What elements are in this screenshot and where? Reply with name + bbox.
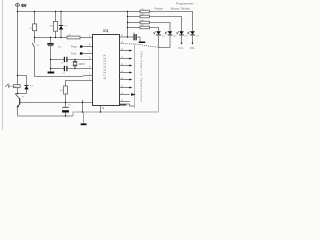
diode D2 flyback xyxy=(18,76,27,86)
wire LED1+LED2 cathodes join xyxy=(159,35,171,47)
wire pin19 dashed to LED cathodes xyxy=(120,44,162,48)
capacitor C5 electrolytic xyxy=(65,103,67,108)
svg-text:AT90S2313: AT90S2313 xyxy=(103,54,107,80)
wire R7 to LED4 xyxy=(149,12,192,32)
wire cathode bus down xyxy=(157,48,159,113)
capacitor C1 electrolytic xyxy=(50,38,52,43)
wire R10 to LED1 xyxy=(149,28,158,32)
wire LED4 to Pd2 xyxy=(192,35,194,43)
LED LD4 xyxy=(187,31,198,37)
frame left border xyxy=(2,0,4,130)
wire XTAL2 xyxy=(51,68,64,70)
wire switch to IC pin2 xyxy=(35,76,93,77)
wire ground rail right (light) xyxy=(73,112,158,116)
resistor R10 xyxy=(140,26,149,29)
resistor R9 xyxy=(140,21,149,24)
LED LD3 xyxy=(176,31,187,37)
wire +5V down to relay xyxy=(17,7,19,75)
svg-text:C3: C3 xyxy=(61,63,63,65)
svg-text:Empty: Empty xyxy=(171,6,180,10)
wire XTAL1 xyxy=(51,59,64,61)
svg-text:4MHz: 4MHz xyxy=(79,63,86,66)
wire R9 to LED2 xyxy=(149,23,170,32)
wire relay contact to edge xyxy=(9,85,14,87)
svg-text:LD4: LD4 xyxy=(195,35,198,37)
ground xyxy=(48,72,55,74)
resistor R1 xyxy=(34,12,36,24)
svg-text:Prgm: Prgm xyxy=(71,45,77,49)
wire +5V rail xyxy=(18,11,128,13)
cable arrowheads xyxy=(129,50,136,96)
junction dots xyxy=(17,11,128,117)
diode D1 xyxy=(60,12,62,26)
ground xyxy=(83,112,85,123)
transistor T1 xyxy=(19,98,21,104)
svg-text:Falsch: Falsch xyxy=(154,6,163,10)
relay K1 coil xyxy=(17,76,19,85)
capacitor C4 xyxy=(63,66,65,71)
resistor R5 1k xyxy=(67,36,80,39)
wire LED supply bus xyxy=(127,12,129,38)
capacitor C3 xyxy=(63,57,65,62)
svg-text:Pd2: Pd2 xyxy=(190,47,195,50)
svg-text:C4: C4 xyxy=(62,73,64,75)
svg-text:Pd 1: Pd 1 xyxy=(178,47,184,50)
svg-text:Richtig: Richtig xyxy=(181,6,191,10)
svg-text:Über Kabel zur Tastatureinheit: Über Kabel zur Tastatureinheit xyxy=(139,51,143,102)
wire base line xyxy=(20,102,92,104)
resistor R7 xyxy=(140,10,149,13)
supply +5V symbol xyxy=(15,3,20,8)
svg-text:LD1: LD1 xyxy=(161,35,164,37)
wire R8 to LED3 xyxy=(149,17,181,32)
svg-text:5V: 5V xyxy=(21,3,26,8)
svg-text:IC1: IC1 xyxy=(103,29,108,33)
wire reset line xyxy=(35,37,68,39)
crystal Q1 4MHz xyxy=(74,60,76,62)
LED LD1 xyxy=(153,31,164,37)
svg-text:LD3: LD3 xyxy=(184,35,187,37)
wire LED3 to Pd1 xyxy=(181,35,183,43)
connector cable line xyxy=(134,44,136,108)
wire IC gnd xyxy=(100,106,102,113)
resistor R3 base resistor xyxy=(66,81,93,87)
svg-text:LD2: LD2 xyxy=(173,35,176,37)
wire IC bottom to cable xyxy=(120,104,135,106)
LED LD2 xyxy=(165,31,176,37)
IC U1 microcontroller box xyxy=(93,35,120,106)
resistor R2 xyxy=(55,12,57,22)
wire ground rail left xyxy=(18,115,74,117)
ground xyxy=(139,42,146,44)
right side pin wires to cable xyxy=(120,36,134,38)
wire base line drop to gnd rail xyxy=(82,100,84,112)
resistor R8 xyxy=(140,15,149,18)
svg-text:Programmier-: Programmier- xyxy=(176,2,194,6)
switch S1 xyxy=(34,38,36,43)
svg-text:Drck: Drck xyxy=(71,52,77,56)
